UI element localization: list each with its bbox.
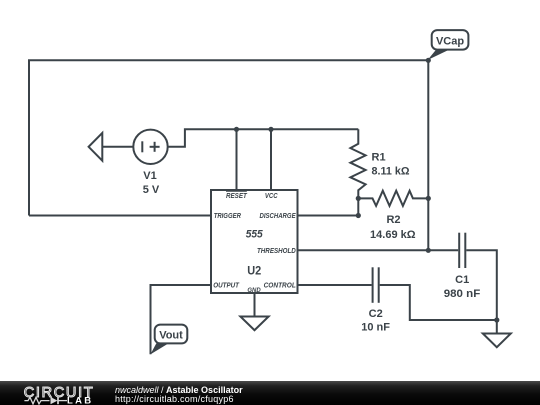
node R2/VCap junction	[426, 196, 431, 201]
svg-text:GND: GND	[247, 288, 261, 294]
node VCC junction	[268, 127, 273, 132]
svg-text:R1: R1	[372, 152, 386, 164]
wire V1 positive lead to R1 top	[168, 129, 359, 147]
voltage source V1	[133, 130, 167, 164]
ground GND1 (V1, pointing left)	[89, 133, 103, 161]
wire output to Vout	[151, 285, 212, 354]
capacitor C2	[373, 267, 379, 303]
svg-text:RESET: RESET	[226, 193, 247, 200]
wire R1/R2 node down to DISCHARGE	[357, 198, 359, 215]
node R1/R2 junction	[356, 196, 361, 201]
credit line 1	[115, 386, 243, 395]
svg-text:C2: C2	[369, 308, 383, 320]
svg-text:CONTROL: CONTROL	[264, 282, 296, 289]
wire 555 GND pin lead	[254, 293, 256, 317]
node RESET junction	[234, 127, 239, 132]
flag VCap	[428, 30, 469, 60]
svg-text:5 V: 5 V	[143, 184, 160, 196]
ground GND3 (right, pointing down)	[483, 334, 511, 348]
svg-text:VCap: VCap	[436, 36, 464, 48]
node ground junction	[494, 317, 499, 322]
wire VCap vertical	[427, 60, 429, 250]
logo CircuitLab	[18, 382, 118, 405]
resistor R1	[350, 129, 365, 198]
capacitor C1	[459, 233, 465, 268]
svg-text:10 nF: 10 nF	[361, 322, 390, 334]
svg-text:14.69 kΩ: 14.69 kΩ	[370, 229, 416, 241]
svg-text:LAB: LAB	[67, 395, 93, 405]
svg-text:555: 555	[246, 229, 264, 241]
pin RESET	[226, 191, 247, 200]
svg-text:VCC: VCC	[265, 193, 279, 200]
svg-text:THRESHOLD: THRESHOLD	[257, 248, 296, 255]
wire RESET pin lead	[236, 129, 238, 190]
node junction dots	[234, 58, 500, 323]
wire VCC pin lead	[270, 129, 272, 190]
node THRESHOLD/VCap junction	[426, 248, 431, 253]
resistor R2	[358, 191, 428, 206]
wire trigger horizontal	[29, 215, 211, 217]
wire left vertical (TRIGGER to top loop)	[28, 60, 30, 215]
svg-text:TRIGGER: TRIGGER	[214, 213, 241, 220]
svg-text:U2: U2	[247, 264, 261, 278]
wire C2 return to ground node	[380, 285, 497, 320]
wire V1 negative lead	[102, 146, 133, 148]
svg-text:C1: C1	[455, 274, 469, 286]
wire control to C2	[298, 284, 372, 286]
svg-text:980 nF: 980 nF	[444, 288, 481, 300]
wire discharge horizontal	[298, 215, 359, 217]
ground GND2 (under 555, pointing down)	[240, 317, 268, 331]
flag Vout	[150, 325, 187, 355]
wire top (loop to VCap node)	[28, 59, 428, 61]
credit line 2	[115, 395, 234, 404]
wire threshold to C1	[298, 249, 459, 251]
wire ground lead right	[496, 320, 498, 334]
svg-text:Vout: Vout	[159, 330, 183, 342]
wire C1 to ground	[466, 250, 497, 320]
op-amp box U2 (555 timer)	[211, 190, 298, 293]
svg-text:DISCHARGE: DISCHARGE	[260, 213, 296, 220]
svg-text:8.11 kΩ: 8.11 kΩ	[372, 165, 410, 177]
node VCap junction	[426, 58, 431, 63]
svg-text:R2: R2	[386, 214, 400, 226]
svg-text:V1: V1	[143, 170, 156, 182]
node DISCHARGE junction	[356, 213, 361, 218]
footer bar	[0, 381, 540, 405]
svg-text:OUTPUT: OUTPUT	[213, 282, 239, 289]
